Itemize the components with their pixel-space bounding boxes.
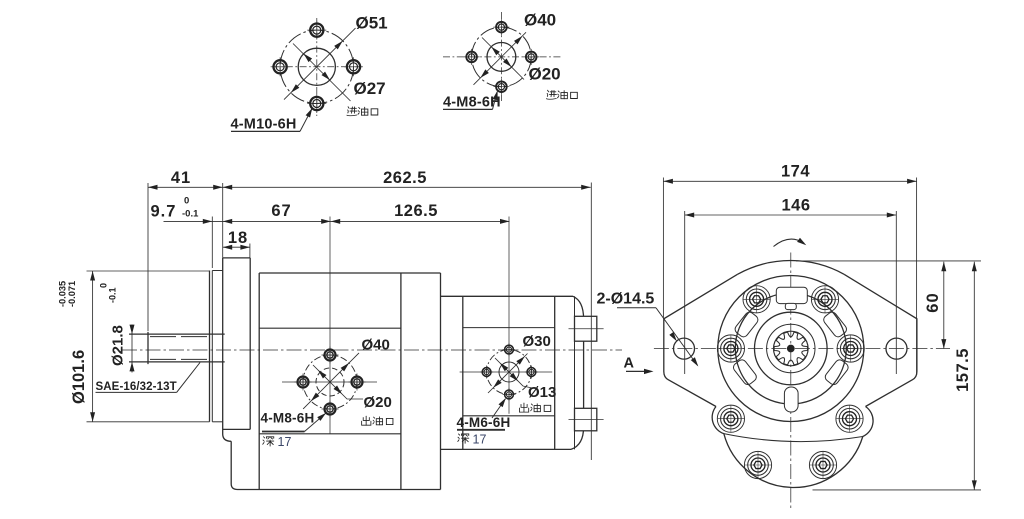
svg-text:4-M8-6H: 4-M8-6H — [443, 95, 501, 111]
bolt hole top — [493, 19, 509, 35]
bolt circle dia 51 (dash-dot) — [280, 30, 353, 103]
shaft boss circle — [755, 312, 828, 385]
dim dia21.8 vertical — [131, 325, 133, 373]
dia 51 leader line — [284, 28, 356, 100]
front cover circle — [718, 276, 864, 422]
lobe screw left — [717, 405, 744, 432]
dia 20 leader line — [482, 38, 524, 80]
front (end) view of pump — [597, 163, 982, 512]
upper-right web pad — [822, 310, 848, 338]
main centerline — [122, 349, 622, 351]
lower-right web pad — [823, 358, 849, 386]
leader 4-M10-6H — [231, 130, 300, 132]
upper-left web pad — [733, 310, 759, 338]
pilot circle dia 27 — [298, 48, 335, 85]
pump silhouette top arc — [738, 261, 845, 275]
rear cover outline — [574, 296, 576, 449]
label chuyoukou (oil outlet) body2 — [519, 403, 528, 412]
flange detail view 2 (4-M8 mounting flange) — [443, 11, 577, 111]
bolt hole bottom — [493, 79, 509, 95]
front view horizontal centerline — [654, 348, 950, 350]
port2 bore dia13 — [499, 362, 519, 382]
lower-left web pad — [732, 358, 758, 386]
port1 dia40 leader — [303, 353, 359, 409]
bolt hole right — [344, 57, 363, 76]
rear cover lower port boss — [575, 408, 597, 431]
port2 dia13 leader — [495, 358, 532, 388]
pilot spigot face (double line) — [209, 271, 211, 422]
svg-text:9.7: 9.7 — [151, 203, 177, 221]
mounting flange plate — [223, 258, 251, 441]
flange detail view 1 (4-M10 mounting flange) — [231, 14, 388, 133]
svg-text:Ø20: Ø20 — [364, 394, 392, 411]
svg-text:0: 0 — [99, 283, 109, 288]
svg-text:Ø27: Ø27 — [354, 79, 386, 98]
bolt hole right — [523, 49, 539, 65]
bolt hole left — [464, 49, 480, 65]
port1 bolt hole left — [295, 374, 312, 391]
svg-text:4-M10-6H: 4-M10-6H — [231, 117, 297, 133]
svg-text:0: 0 — [184, 196, 189, 207]
lobe-body junction arc — [724, 434, 863, 442]
svg-text:17: 17 — [473, 433, 487, 447]
dim 157.5 — [973, 262, 975, 490]
top web pad — [776, 287, 807, 303]
lobe screw right — [836, 405, 863, 432]
cover screw left — [717, 335, 744, 362]
centerline horizontal — [443, 56, 561, 58]
bolt circle dia 40 (dash-dot) — [472, 27, 532, 87]
svg-text:18: 18 — [228, 229, 248, 247]
port1 bore dia20 (dashed) — [316, 368, 344, 396]
pump silhouette left side — [664, 274, 738, 406]
dim 174 — [663, 180, 916, 182]
body2 port pad band — [463, 327, 555, 329]
centerline vertical — [500, 12, 502, 101]
rear cover upper port boss — [575, 316, 597, 341]
port2 bolt hole right — [525, 366, 538, 379]
svg-text:41: 41 — [171, 169, 191, 187]
extension line lobe bottom — [813, 489, 982, 491]
port1 bolt circle dia40 dash-dot — [303, 355, 357, 409]
svg-text:60: 60 — [924, 292, 942, 312]
bottom rib slot — [784, 387, 798, 412]
svg-text:A: A — [624, 356, 635, 372]
lower lobe outline with screw boss bulges — [712, 407, 873, 488]
leader 4-M6-6H port2 — [457, 429, 505, 431]
label depth17 body1 — [263, 437, 274, 446]
flange pedestal to body bottom — [231, 441, 237, 489]
label chuyoukou (oil outlet) body1 — [362, 416, 371, 425]
svg-text:174: 174 — [781, 163, 810, 181]
svg-text:146: 146 — [781, 197, 810, 215]
port1 dia20 leader — [313, 365, 363, 399]
port2 dia30 leader — [488, 354, 528, 394]
right mounting ear hole dia14.5 — [886, 338, 907, 359]
svg-text:4-M8-6H: 4-M8-6H — [261, 411, 315, 426]
svg-text:-0.1: -0.1 — [108, 287, 118, 303]
port2 bolt hole top — [503, 343, 516, 356]
lobe screw bottom-left — [744, 451, 771, 478]
svg-text:17: 17 — [278, 435, 292, 449]
svg-text:Ø21.8: Ø21.8 — [110, 325, 127, 366]
extension lines — [147, 183, 149, 331]
dim row1 line (41 / 262.5) — [148, 186, 591, 188]
port2 bolt hole left — [480, 366, 493, 379]
svg-text:126.5: 126.5 — [394, 202, 438, 220]
spline center dot — [787, 345, 795, 353]
dim dia101.6 vertical — [92, 271, 94, 422]
dim row2 line (9.7 / 67 / 126.5) — [164, 220, 510, 222]
svg-text:Ø51: Ø51 — [356, 14, 388, 33]
extension line top edge — [796, 260, 981, 262]
leader 2-dia14.5 — [617, 307, 656, 309]
port2 bolt circle dia30 dash-dot — [487, 350, 532, 395]
rotation direction arrow — [774, 239, 805, 246]
dim 60 — [943, 262, 945, 349]
svg-text:2-Ø14.5: 2-Ø14.5 — [597, 291, 655, 308]
shaft spline lines (dashed) — [150, 336, 210, 338]
dim 146 — [685, 214, 897, 216]
bolt hole bottom — [307, 94, 326, 113]
svg-text:262.5: 262.5 — [383, 169, 427, 187]
leader 4-M8-6H — [443, 108, 493, 110]
dia 40 leader line — [474, 32, 527, 85]
body section 2 outline — [441, 296, 574, 449]
internal spline — [767, 324, 815, 372]
svg-text:-0.071: -0.071 — [67, 281, 77, 307]
svg-text:Ø13: Ø13 — [528, 384, 556, 401]
label depth17 body2 — [458, 434, 469, 443]
lobe screw bottom-right — [809, 451, 836, 478]
body section 1 outline — [238, 273, 441, 490]
leader 4-M8-6H port1 — [262, 431, 305, 433]
cover screw upper-right — [811, 286, 838, 313]
port flange 2 crosshair — [460, 371, 553, 373]
port flange 1 crosshair — [282, 381, 377, 383]
port1 bolt hole top — [322, 347, 339, 364]
front view vertical centerline — [790, 253, 792, 512]
svg-text:67: 67 — [271, 202, 291, 220]
port1 bolt hole bottom — [322, 401, 339, 418]
port2 bolt hole bottom — [503, 388, 516, 401]
centerline vertical — [316, 18, 318, 116]
bolt hole top — [307, 21, 326, 40]
dim 18 line — [223, 246, 250, 248]
left mounting ear hole dia14.5 — [674, 338, 695, 359]
svg-text:Ø20: Ø20 — [529, 65, 561, 84]
svg-text:157.5: 157.5 — [954, 348, 972, 392]
svg-text:-0.1: -0.1 — [182, 209, 199, 220]
cover screw right — [837, 335, 864, 362]
bolt hole left — [271, 57, 290, 76]
cover screw upper-left — [743, 286, 770, 313]
label jinyoukou (oil inlet) — [546, 90, 556, 99]
svg-text:-0.035: -0.035 — [58, 281, 68, 307]
svg-text:Ø30: Ø30 — [523, 333, 551, 350]
svg-text:Ø40: Ø40 — [524, 11, 556, 30]
pump silhouette right side — [844, 274, 917, 406]
pilot top edge — [212, 270, 222, 272]
pilot circle dia 20 — [487, 43, 516, 72]
port1 bolt hole right — [349, 374, 366, 391]
pilot bottom edge — [212, 421, 222, 423]
shaft outline — [129, 332, 225, 364]
gear housing circle — [735, 293, 846, 404]
spline leader — [96, 391, 177, 393]
centerline horizontal — [272, 66, 362, 68]
side view of double gear pump — [58, 169, 623, 490]
svg-text:Ø101.6: Ø101.6 — [70, 350, 88, 404]
svg-text:Ø40: Ø40 — [362, 337, 390, 354]
body1 port pad band — [259, 327, 401, 329]
dia 27 leader line — [293, 44, 351, 102]
label jinyoukou (oil inlet) — [347, 107, 357, 116]
svg-text:SAE-16/32-13T: SAE-16/32-13T — [96, 381, 177, 393]
svg-text:4-M6-6H: 4-M6-6H — [457, 415, 511, 430]
